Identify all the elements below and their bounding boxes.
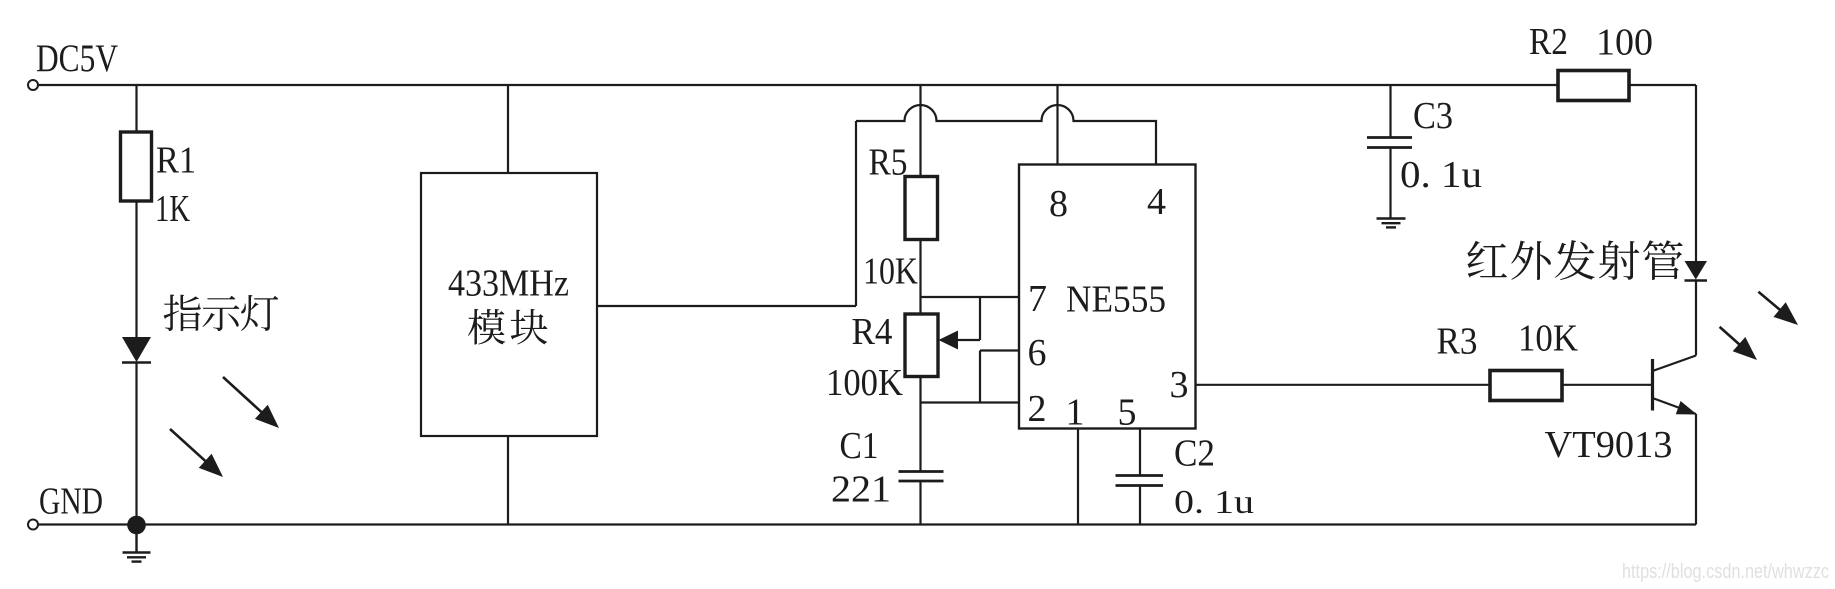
ground symbol C3 [1377, 219, 1406, 228]
svg-text:3: 3 [1170, 364, 1189, 406]
wire R2 to corner [1629, 84, 1696, 86]
svg-text:NE555: NE555 [1066, 279, 1166, 321]
transistor Q1 base bar [1651, 359, 1654, 411]
wire C3 to ground [1389, 148, 1391, 219]
svg-text:5: 5 [1118, 392, 1137, 434]
potentiometer R4 [905, 314, 938, 377]
svg-text:C3: C3 [1413, 95, 1453, 137]
label 模块 [468, 309, 547, 345]
svg-text:DC5V: DC5V [36, 37, 118, 80]
wire emitter to ground rail [1695, 414, 1697, 525]
svg-text:R5: R5 [869, 142, 908, 184]
capacitor C2 [1116, 476, 1164, 486]
wire pin8 from rail [1056, 85, 1058, 165]
wire R5 from rail [919, 85, 921, 177]
svg-text:6: 6 [1028, 332, 1047, 374]
wire corner to LED2 [1695, 85, 1697, 262]
svg-text:221: 221 [831, 469, 891, 511]
light ray arrow 1 [223, 377, 264, 414]
wire pin7 [921, 296, 1020, 298]
wire R1 to LED [135, 201, 137, 337]
svg-text:2: 2 [1028, 388, 1047, 430]
wire pin2 [921, 401, 1020, 403]
svg-text:R2: R2 [1529, 21, 1568, 63]
wire C3 from rail [1389, 85, 1391, 138]
label 红外发射管 [1467, 240, 1682, 280]
svg-text:0. 1u: 0. 1u [1400, 154, 1482, 196]
svg-text:1: 1 [1066, 392, 1085, 434]
transistor Q1 collector [1653, 356, 1697, 372]
LED D1 indicator [122, 337, 151, 362]
svg-text:100: 100 [1596, 22, 1653, 64]
resistor R3 [1490, 371, 1562, 401]
svg-text:R3: R3 [1437, 321, 1478, 363]
svg-text:10K: 10K [863, 251, 918, 293]
svg-text:7: 7 [1028, 278, 1047, 320]
svg-text:VT9013: VT9013 [1545, 424, 1673, 466]
light ray arrow 4 [1720, 327, 1742, 347]
light ray arrow 2 [170, 429, 208, 463]
wire C1 to ground rail [919, 481, 921, 525]
label 指示灯 [164, 294, 279, 331]
transistor Q1 emitter [1653, 398, 1697, 414]
svg-text:GND: GND [39, 481, 103, 523]
wire LED to ground rail [135, 363, 137, 526]
terminal GND [28, 520, 38, 530]
op-amp U1 NE555 box [1019, 165, 1196, 429]
module 433MHz box [421, 173, 597, 436]
wire R3 to base [1562, 384, 1651, 386]
capacitor C1 [899, 472, 944, 482]
resistor R2 [1558, 71, 1629, 101]
wire pin5 to C2 [1139, 429, 1141, 476]
wire hop line to pin4 [856, 105, 1156, 165]
svg-text:C2: C2 [1174, 433, 1215, 475]
svg-text:0. 1u: 0. 1u [1174, 484, 1254, 521]
wire R1 from rail [135, 85, 137, 132]
wire module output riser [855, 121, 857, 306]
wire module to ground rail [507, 436, 509, 525]
wire pin6 [980, 349, 1019, 351]
wire LED2 to collector [1695, 280, 1697, 356]
wire R5 to R4 [919, 240, 921, 315]
svg-text:R4: R4 [852, 311, 893, 353]
svg-text:8: 8 [1049, 183, 1068, 225]
svg-text:10K: 10K [1518, 318, 1579, 360]
wire C2 to ground rail [1139, 486, 1141, 525]
light ray arrow 3 [1758, 292, 1782, 312]
svg-text:https://blog.csdn.net/whwzzc: https://blog.csdn.net/whwzzc [1622, 561, 1829, 583]
wiper arrow R4 [939, 331, 959, 350]
svg-text:1K: 1K [155, 188, 190, 230]
wire pin6 to pin2 [979, 351, 981, 403]
wire module from rail [507, 85, 509, 173]
wire module output [597, 305, 856, 307]
wire top rail [38, 84, 1557, 86]
svg-text:C1: C1 [840, 425, 879, 467]
wire wiper to pin7 net [979, 297, 981, 340]
wire R4 to C1 [919, 377, 921, 472]
wire bottom rail [38, 523, 1696, 525]
svg-text:4: 4 [1147, 181, 1166, 223]
svg-text:433MHz: 433MHz [448, 263, 569, 305]
resistor R5 [905, 177, 938, 240]
junction dot [127, 516, 146, 535]
terminal DC5V [28, 80, 38, 90]
svg-text:R1: R1 [156, 140, 196, 182]
wire pin1 to ground rail [1077, 429, 1079, 525]
wire pin3 output [1196, 384, 1491, 386]
svg-text:100K: 100K [826, 362, 903, 404]
ground symbol [123, 534, 151, 562]
resistor R1 [121, 132, 152, 201]
LED D2 infrared [1685, 261, 1708, 280]
capacitor C3 [1367, 138, 1412, 148]
